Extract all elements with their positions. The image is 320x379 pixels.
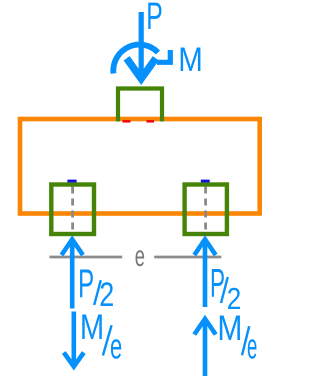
svg-text:P: P xyxy=(146,0,163,38)
svg-text:P: P xyxy=(78,262,94,306)
svg-text:M: M xyxy=(217,309,242,348)
svg-text:M: M xyxy=(80,308,104,347)
svg-text:e: e xyxy=(135,240,145,273)
svg-text:e: e xyxy=(110,326,122,367)
svg-text:e: e xyxy=(247,326,257,367)
svg-text:M: M xyxy=(178,41,203,79)
